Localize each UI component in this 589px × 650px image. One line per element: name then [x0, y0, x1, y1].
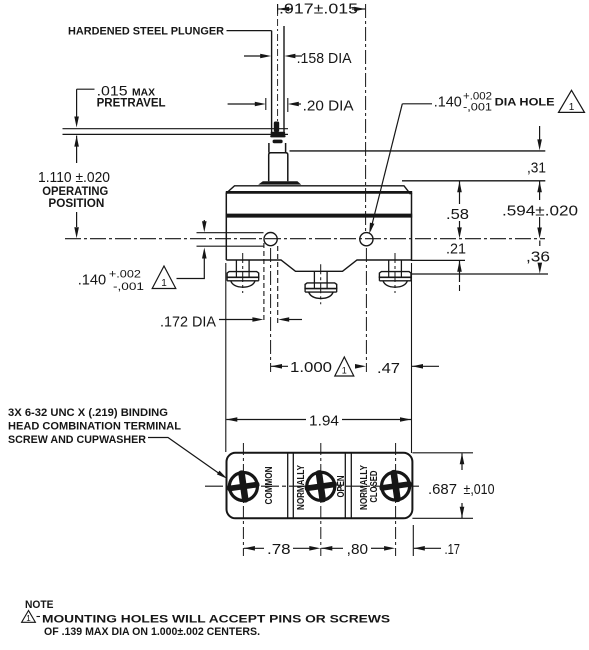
plunger centerline — [277, 4, 279, 130]
right mounting hole — [360, 233, 373, 246]
svg-text:.78: .78 — [267, 542, 291, 558]
svg-text:1.000: 1.000 — [290, 359, 332, 376]
leader from screw label to terminal block — [148, 438, 222, 476]
dim 1.94 — [226, 417, 237, 422]
flag note triangle 1 (top right) — [559, 90, 585, 112]
main horizontal centerline (operating position) — [65, 238, 545, 240]
svg-text:DIA HOLE: DIA HOLE — [495, 97, 555, 109]
body heavy band — [226, 214, 412, 218]
body top edge — [226, 191, 412, 194]
svg-text:NOTE: NOTE — [25, 599, 54, 611]
body top plateau — [228, 186, 411, 194]
svg-text:1: 1 — [342, 366, 347, 376]
plunger rod — [271, 31, 273, 133]
svg-text:1: 1 — [26, 614, 31, 623]
svg-text:CLOSED: CLOSED — [369, 471, 380, 503]
.172 DIA extension lines under left hole — [263, 243, 265, 323]
svg-text:.20 DIA: .20 DIA — [303, 98, 354, 114]
upper arrow at hole edge lines — [203, 220, 205, 224]
screw vertical centerlines — [242, 443, 244, 556]
svg-text:OF .139 MAX DIA ON 1.000±: OF .139 MAX DIA ON 1.000±.002 CENTERS. — [44, 626, 260, 638]
svg-text:.594±.020: .594±.020 — [502, 203, 578, 220]
dim .17 — [414, 546, 425, 551]
dim .80 — [321, 546, 332, 551]
svg-text:.917±.015: .917±.015 — [279, 1, 358, 18]
svg-text:-,001: -,001 — [463, 101, 492, 113]
terminal screw (bottom view) — [225, 468, 262, 505]
svg-text:SCREW AND CUPWASHER: SCREW AND CUPWASHER — [8, 434, 146, 446]
svg-text:.21: .21 — [446, 241, 466, 257]
body side extension lines down to terminal block — [225, 263, 227, 452]
dim .58 — [457, 181, 462, 192]
svg-text:COMMON: COMMON — [264, 466, 275, 504]
dim .158 DIA — [244, 55, 263, 57]
terminal screw (bottom view) — [377, 468, 414, 505]
plunger collar (ribbed) — [271, 132, 286, 134]
body left edge — [225, 192, 227, 260]
svg-text:.58: .58 — [446, 207, 469, 223]
.36 bottom reference line — [412, 273, 549, 275]
body seat tab (dark) — [258, 181, 301, 184]
leader from .140 DIA HOLE label to right hole — [402, 103, 432, 105]
svg-text:HEAD COMBINATION TERMINAL: HEAD COMBINATION TERMINAL — [8, 420, 181, 432]
terminal block outline — [227, 453, 413, 519]
svg-text:.687: .687 — [428, 481, 457, 498]
svg-text:,31: ,31 — [527, 161, 546, 177]
svg-text:1: 1 — [569, 102, 575, 113]
free position (pretravel) double line — [63, 128, 289, 130]
dim .36 — [539, 241, 541, 247]
terminal screw (bottom view) — [303, 468, 340, 505]
body bottom with notch — [226, 260, 411, 271]
svg-text:.140: .140 — [434, 94, 462, 111]
leader for .015 — [77, 88, 95, 90]
dim 1.000 — [271, 364, 282, 369]
plunger bushing — [269, 143, 286, 153]
svg-text:POSITION: POSITION — [48, 196, 104, 210]
svg-text:MOUNTING HOLES WILL ACCEPT: MOUNTING HOLES WILL ACCEPT PINS OR SCREW… — [42, 613, 390, 625]
leader to plunger — [227, 30, 272, 32]
dim 1.110 operating position — [74, 136, 79, 147]
hole centerline extensions down (1.000 dim) — [270, 248, 272, 372]
svg-text:.158 DIA: .158 DIA — [297, 51, 352, 67]
bottom dim extension lines — [412, 525, 414, 556]
svg-text:3X 6-32 UNC X (.219) BIND: 3X 6-32 UNC X (.219) BINDING — [8, 407, 168, 419]
leader for left .140 — [177, 256, 205, 279]
terminal screw (side view) — [388, 260, 390, 272]
dim .78 — [244, 546, 255, 551]
svg-text:HARDENED STEEL PLUNGER: HARDENED STEEL PLUNGER — [68, 25, 224, 37]
dim .594+-.020 — [537, 181, 542, 192]
svg-text:±,010: ±,010 — [464, 481, 495, 498]
svg-text:,80: ,80 — [347, 542, 368, 558]
dim .20 DIA — [228, 103, 258, 105]
plunger base — [269, 153, 288, 182]
svg-text:OPEN: OPEN — [336, 476, 347, 498]
.917 right extension line down to hole — [365, 4, 367, 231]
svg-text:.140: .140 — [78, 271, 107, 288]
divider lines 2 — [344, 453, 346, 518]
svg-text:NORMALLY: NORMALLY — [296, 465, 307, 510]
extension of right shoulder (.21 ref) — [412, 259, 466, 261]
divider lines 1 — [287, 453, 289, 518]
svg-text:+.002: +.002 — [109, 269, 141, 281]
note flag triangle — [22, 611, 36, 623]
terminal screw (side view) — [235, 260, 237, 272]
svg-text:PRETRAVEL: PRETRAVEL — [97, 96, 166, 110]
terminal screw (side view) — [313, 271, 315, 283]
svg-text:1: 1 — [161, 278, 167, 289]
block horizontal centerline — [205, 485, 420, 487]
dim .687+-.010 — [412, 452, 473, 454]
svg-text:.172 DIA: .172 DIA — [160, 315, 216, 331]
svg-text:-,001: -,001 — [113, 281, 144, 293]
dim .31 — [539, 126, 541, 141]
reference line from plunger base (top of .31) — [290, 150, 546, 152]
svg-text:.17: .17 — [445, 542, 461, 558]
hole edge extension lines (left hole) — [197, 232, 264, 234]
left mounting hole — [264, 233, 277, 246]
flag note triangle (1.000) — [335, 357, 354, 376]
dim .917+-.015 — [278, 7, 289, 12]
body right edge — [411, 193, 413, 261]
plunger rod end (dark) — [274, 122, 279, 133]
top edge extension line (.31 bottom / .594 top) — [402, 180, 545, 182]
svg-text:1.94: 1.94 — [309, 412, 339, 429]
svg-text:.47: .47 — [377, 360, 400, 377]
flag note triangle 1 (left) — [152, 266, 176, 289]
